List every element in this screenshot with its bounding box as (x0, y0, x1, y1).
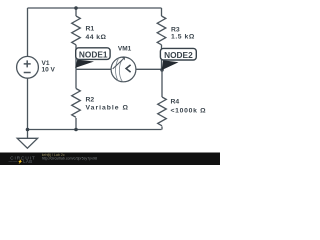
node flag NODE2 (160, 48, 196, 70)
wire: R3 bottom lead to NODE2 junction (161, 45, 163, 70)
resistor R4 (158, 97, 167, 126)
svg-text:<1000k Ω: <1000k Ω (171, 107, 207, 114)
svg-text:NODE2: NODE2 (164, 50, 193, 60)
junction dot: NODE2 junction (160, 68, 164, 72)
junction dot: top wire / R1 branch (74, 6, 78, 10)
voltage source V1 (17, 56, 39, 78)
wire: left vertical from V1 minus terminal to bottom wire (27, 78, 29, 129)
svg-text:VM1: VM1 (118, 45, 132, 52)
wire: left vertical from top wire to V1 plus terminal (27, 8, 29, 57)
resistor R1 (72, 16, 81, 45)
ground (17, 138, 37, 148)
svg-text:Variable Ω: Variable Ω (86, 104, 129, 111)
wire: R4 branch from NODE2 junction down (161, 70, 163, 97)
svg-text:NODE1: NODE1 (79, 49, 108, 59)
svg-text:1.5 kΩ: 1.5 kΩ (171, 33, 195, 40)
svg-text:10 V: 10 V (42, 67, 56, 74)
wire: horizontal net NODE1 to NODE2 through VM1 (76, 68, 162, 70)
resistor R2 (72, 89, 81, 118)
footer watermark bar (0, 153, 220, 166)
wire: R3 branch top lead from top-right corner (161, 8, 163, 16)
wire: R4 bottom lead to bottom wire (161, 126, 163, 129)
wire: R2 branch from NODE1 junction down (75, 69, 77, 88)
svg-text:44 kΩ: 44 kΩ (86, 34, 107, 41)
node flag NODE1 (75, 48, 110, 68)
voltmeter VM1 (111, 57, 136, 82)
wire: top horizontal net (28, 7, 162, 9)
wire: bottom horizontal net (28, 129, 162, 131)
svg-text:http://circuitlab.com/c/3pr5sy: http://circuitlab.com/c/3pr5sy7pv98 (42, 156, 97, 160)
junction dot: bottom wire / R2 branch (74, 128, 78, 132)
svg-text:R1: R1 (86, 26, 95, 33)
svg-text:R2: R2 (86, 97, 95, 104)
resistor R3 (157, 16, 166, 45)
svg-text:R4: R4 (171, 99, 180, 106)
wire: R2 bottom lead to bottom wire (75, 118, 77, 130)
junction dot: bottom-left node (26, 128, 30, 132)
wire: R1 top lead from top wire (75, 8, 77, 16)
wire: ground stub (27, 130, 29, 139)
wire: R1 bottom lead to NODE1 junction (75, 45, 77, 70)
